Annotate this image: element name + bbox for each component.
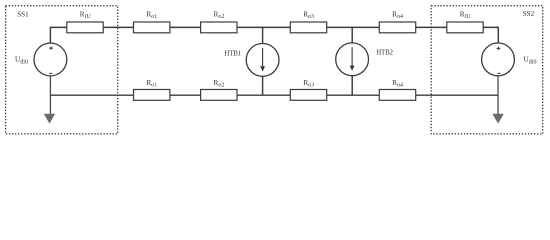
arrow inside HTB1 xyxy=(262,48,264,67)
wire: R_iU right and down to SS2 source xyxy=(483,27,498,43)
wire: HTB2 to bottom rail xyxy=(351,76,353,96)
resistor R_iU (SS1) xyxy=(67,22,103,33)
voltage source U_di0 (SS1) xyxy=(34,43,67,76)
svg-text:HTB2: HTB2 xyxy=(376,50,393,57)
svg-text:HTB1: HTB1 xyxy=(224,50,241,57)
wire: SS1 source bottom lead xyxy=(49,76,51,115)
ground arrow (SS2) xyxy=(492,114,503,124)
resistor R_o2 (top) xyxy=(201,22,237,33)
wire: SS1 source top lead up and right to R_iU xyxy=(50,27,66,43)
current source HTB1 xyxy=(246,44,279,77)
plus sign (SS2 source) xyxy=(497,47,501,51)
substation box SS2 (dashed) xyxy=(431,6,543,134)
resistor R_o3 (bottom) xyxy=(290,90,326,101)
wire: R_o3 to R_o4 with junction to HTB2 (top rail) xyxy=(327,26,380,28)
minus sign (SS1 source) xyxy=(49,72,52,74)
resistor R_o2 (bottom) xyxy=(201,90,237,101)
wire: R_iU to R_o1 (top rail) xyxy=(103,26,133,28)
resistor R_o4 (bottom) xyxy=(379,90,415,101)
wire: bottom rail R_o4 to SS2 source xyxy=(416,94,498,96)
wire: HTB1 to bottom rail xyxy=(262,76,264,95)
resistor R_o1 (bottom) xyxy=(134,90,170,101)
minus sign (SS2 source) xyxy=(497,72,500,74)
wire: R_o2 to R_o3 with junction to HTB1 (top rail) xyxy=(237,26,290,28)
resistor R_o3 (top) xyxy=(290,22,326,33)
ground arrow (SS1) xyxy=(44,114,55,124)
plus sign (SS1 source) xyxy=(49,46,53,50)
wire: SS2 source bottom lead xyxy=(497,76,499,115)
wire: bottom rail R_o1 to R_o2 xyxy=(170,94,201,96)
wire: R_o4 to R_iU (SS2, top rail) xyxy=(416,26,447,28)
substation box SS1 (dashed) xyxy=(6,6,118,134)
svg-text:SS2: SS2 xyxy=(523,10,535,18)
wire: bottom rail R_o2 to R_o3 with junction from HTB1 xyxy=(237,94,290,96)
arrow inside HTB2 xyxy=(351,47,353,66)
wire: R_o1 to R_o2 (top rail) xyxy=(170,26,201,28)
svg-text:SS1: SS1 xyxy=(17,10,29,18)
current source HTB2 xyxy=(336,43,369,76)
voltage source U_di0 (SS2) xyxy=(482,43,515,76)
wire: top rail to HTB1 xyxy=(262,27,264,43)
resistor R_o4 (top) xyxy=(379,22,415,33)
resistor R_o1 (top) xyxy=(134,22,170,33)
wire: bottom rail SS1 source to R_o1 xyxy=(50,94,133,96)
resistor R_iU (SS2) xyxy=(447,22,483,33)
wire: top rail to HTB2 xyxy=(351,27,353,43)
wire: bottom rail R_o3 to R_o4 with junction from HTB2 xyxy=(327,94,380,96)
